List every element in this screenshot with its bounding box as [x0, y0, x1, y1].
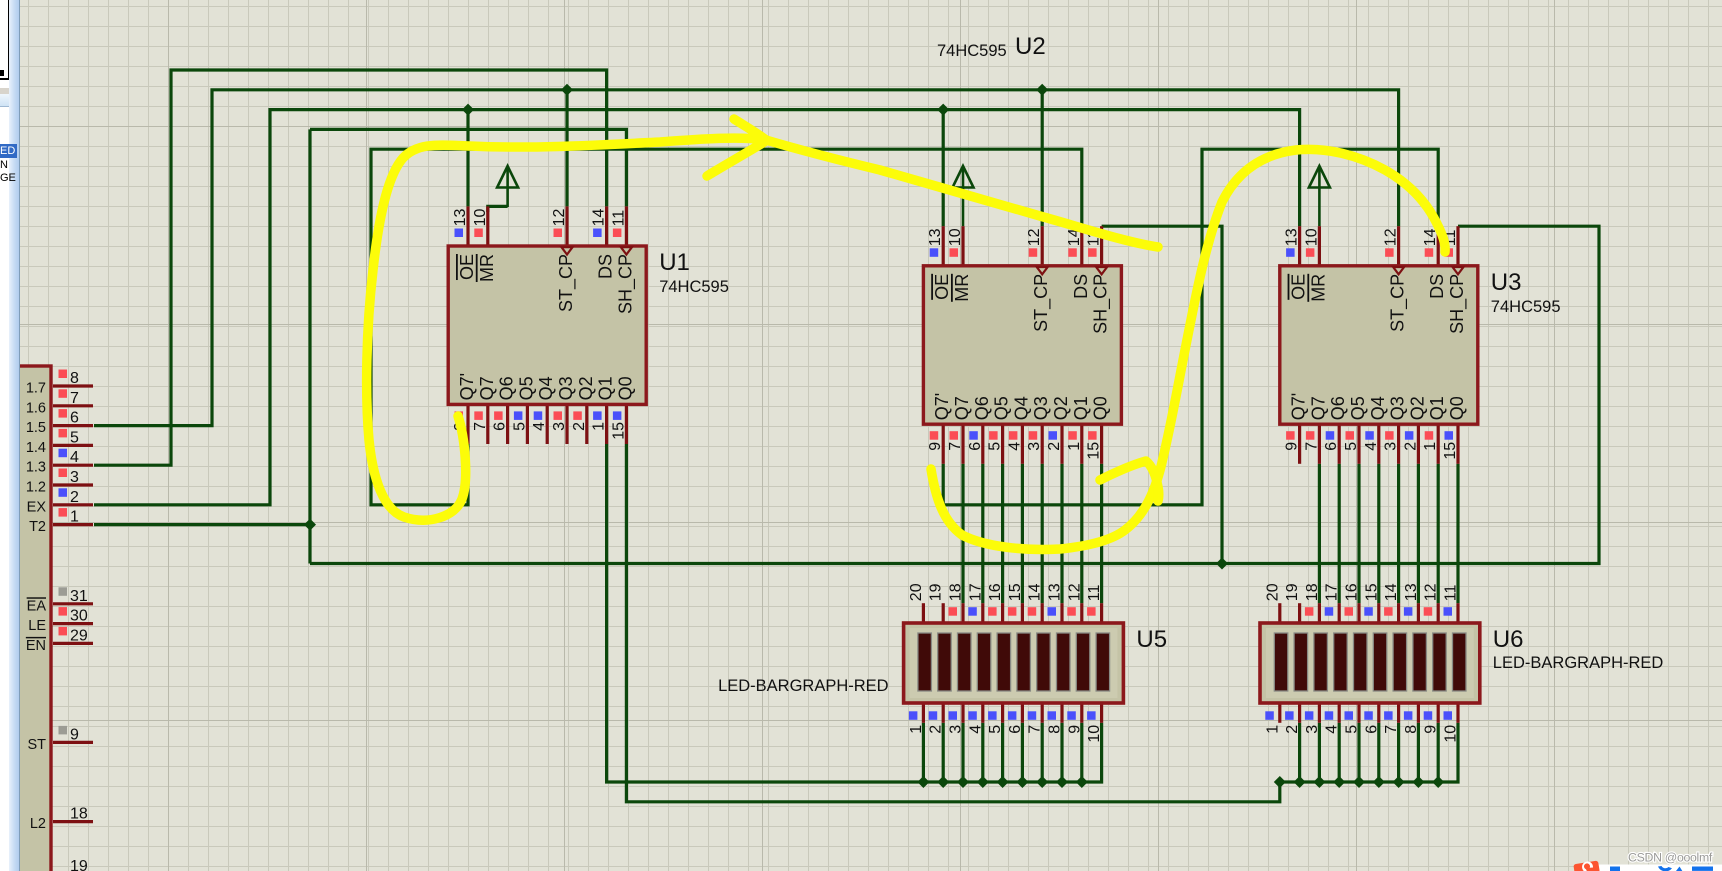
svg-text:4: 4	[70, 449, 79, 466]
svg-text:5: 5	[1343, 442, 1360, 451]
svg-text:EA: EA	[27, 598, 47, 614]
svg-text:1.4: 1.4	[26, 440, 46, 456]
pin 14 (top) of U6	[1397, 603, 1400, 623]
overview pane black border	[0, 0, 10, 80]
pin 5 (bottom) of U3	[1357, 424, 1360, 464]
pin 12 (top) of U2	[1041, 226, 1044, 266]
pin 2 (bottom) of U2	[1060, 424, 1063, 464]
LED segment 1 of U5	[918, 633, 932, 691]
svg-text:EN: EN	[26, 638, 46, 654]
state square pin 5	[988, 711, 997, 720]
svg-text:74HC595: 74HC595	[1491, 298, 1561, 316]
pin 9 (bottom) of U3	[1298, 424, 1301, 464]
pin 19 (top) of U6	[1298, 603, 1301, 623]
svg-text:11: 11	[1443, 584, 1460, 601]
svg-text:Q7: Q7	[952, 396, 972, 420]
svg-text:2: 2	[70, 489, 79, 506]
wires U2 outputs to U5 bargraph	[961, 464, 964, 603]
pin 3 (bottom) of U1	[565, 404, 568, 444]
svg-text:1: 1	[1066, 442, 1083, 451]
state square pin 5	[1345, 711, 1354, 720]
wire SH_CP net: MCU pin1, upper branch to U1 pin 11	[94, 523, 310, 526]
pin 1 (bottom) of U6	[1278, 703, 1281, 723]
svg-text:18: 18	[948, 583, 965, 601]
wire OE net: MCU pin2 to U1/U2/U3 pin 13	[94, 110, 1300, 505]
MCU chip (partial, left edge)	[14, 366, 51, 871]
LED segment 3 of U5	[958, 633, 972, 691]
chip body U2	[923, 266, 1121, 424]
pin 8 (bottom) of U6	[1417, 703, 1420, 723]
pin 7 (bottom) of U1	[486, 404, 489, 444]
svg-text:8: 8	[1403, 725, 1420, 734]
svg-text:SH_CP: SH_CP	[1447, 274, 1468, 334]
svg-text:5: 5	[987, 442, 1004, 451]
pin 9 (bottom) of U1	[466, 404, 469, 444]
svg-text:9: 9	[70, 726, 79, 743]
svg-text:12: 12	[551, 209, 568, 227]
svg-text:15: 15	[1007, 583, 1024, 601]
svg-text:5: 5	[1344, 725, 1361, 734]
svg-text:7: 7	[70, 390, 79, 407]
pin 10 (bottom) of U5	[1100, 703, 1103, 723]
pin 19 (top) of U5	[942, 603, 945, 623]
svg-text:13: 13	[1047, 583, 1064, 601]
svg-text:Q7': Q7'	[1289, 393, 1309, 420]
LED segment 8 of U5	[1057, 633, 1071, 691]
wire SH_CP vertical trunk	[308, 129, 311, 563]
state square pin 13	[1404, 607, 1413, 616]
svg-text:SH_CP: SH_CP	[615, 254, 636, 314]
pin 3 (bottom) of U2	[1041, 424, 1044, 464]
svg-text:Q6: Q6	[1328, 396, 1348, 420]
state square pin 1	[909, 711, 918, 720]
svg-text:OE: OE	[932, 274, 952, 300]
pin 6 (bottom) of U1	[506, 404, 509, 444]
svg-text:17: 17	[1324, 583, 1341, 601]
LED segment 2 of U6	[1294, 633, 1308, 691]
state square pin 3	[1305, 711, 1314, 720]
annotation fork stroke	[1100, 461, 1159, 501]
svg-text:7: 7	[1027, 725, 1044, 734]
svg-text:7: 7	[947, 442, 964, 451]
pin 15 (top) of U6	[1377, 603, 1380, 623]
svg-text:5: 5	[987, 725, 1004, 734]
MCU pin 4 (1.3)	[53, 464, 93, 467]
svg-text:10: 10	[1303, 228, 1320, 246]
svg-text:31: 31	[70, 588, 88, 605]
CSDN logo (partial)	[1573, 861, 1600, 871]
MCU pin 29 (EN)	[53, 642, 93, 645]
svg-text:Q0: Q0	[615, 376, 635, 400]
MCU pin 9 (ST)	[53, 741, 93, 744]
svg-text:5: 5	[70, 429, 79, 446]
pin 12 (top) of U1	[565, 206, 568, 246]
LED segment 4 of U6	[1334, 633, 1348, 691]
svg-text:19: 19	[928, 583, 945, 601]
svg-text:6: 6	[70, 410, 79, 427]
svg-text:13: 13	[452, 209, 469, 227]
state square pin 9	[1067, 711, 1076, 720]
wire ST_CP net: MCU pin6 to U1/U2/U3 pin 12	[94, 90, 1399, 426]
LED segment 7 of U5	[1037, 633, 1051, 691]
svg-text:6: 6	[492, 422, 509, 431]
svg-text:DS: DS	[1427, 274, 1447, 299]
svg-text:20: 20	[1264, 583, 1281, 601]
wire SH_CP bottom bus to U3	[310, 226, 1599, 563]
svg-text:17: 17	[967, 583, 984, 601]
pin 1 (bottom) of U1	[605, 404, 608, 444]
LED segment 10 of U6	[1453, 633, 1467, 691]
svg-text:9: 9	[1284, 442, 1301, 451]
junction ST_CP at U2.12	[1036, 84, 1048, 96]
svg-text:12: 12	[1383, 228, 1400, 246]
pin 10 (bottom) of U6	[1456, 703, 1459, 723]
svg-text:7: 7	[1303, 442, 1320, 451]
svg-text:13: 13	[927, 228, 944, 246]
pin 13 (top) of U1	[466, 206, 469, 246]
pin 14 (top) of U3	[1437, 226, 1440, 266]
clock notch at x=626	[621, 247, 632, 254]
MCU pin 6 (1.5)	[53, 424, 93, 427]
pin 9 (bottom) of U2	[942, 424, 945, 464]
svg-text:16: 16	[1344, 583, 1361, 601]
pin 20 (top) of U6	[1278, 603, 1281, 623]
svg-text:8: 8	[1047, 725, 1064, 734]
svg-text:3: 3	[70, 469, 79, 486]
svg-text:Q7': Q7'	[457, 373, 477, 400]
pin 1 (bottom) of U2	[1080, 424, 1083, 464]
svg-text:11: 11	[610, 210, 627, 227]
annotation swoosh under U2 up to U3	[931, 149, 1445, 549]
svg-text:Q0: Q0	[1447, 396, 1467, 420]
svg-text:74HC595: 74HC595	[659, 278, 729, 296]
svg-text:SH_CP: SH_CP	[1091, 274, 1112, 334]
svg-text:18: 18	[70, 806, 88, 823]
pin 4 (bottom) of U3	[1377, 424, 1380, 464]
pin 1 (bottom) of U3	[1437, 424, 1440, 464]
svg-text:14: 14	[1383, 583, 1400, 601]
svg-text:19: 19	[1284, 583, 1301, 601]
grey separator	[0, 88, 9, 94]
svg-text:Q0: Q0	[1091, 396, 1111, 420]
pin 14 (top) of U5	[1041, 603, 1044, 623]
wire SH_CP branch to U2 pin 11	[1102, 226, 1222, 563]
state square pin 14	[1384, 607, 1393, 616]
overview pane white area	[0, 0, 9, 88]
MCU pin 5 (1.4)	[53, 444, 93, 447]
wires U3 outputs to U6 bargraph	[1318, 464, 1321, 603]
svg-text:10: 10	[472, 209, 489, 227]
svg-text:Q6: Q6	[497, 376, 517, 400]
svg-text:2: 2	[1046, 442, 1063, 451]
state square pin 6	[1008, 711, 1017, 720]
svg-text:Q7': Q7'	[932, 393, 952, 420]
pin 18 (top) of U6	[1318, 603, 1321, 623]
svg-text:EX: EX	[27, 499, 47, 515]
svg-text:L2: L2	[30, 816, 46, 832]
state square pin 16	[1345, 607, 1354, 616]
svg-text:U1: U1	[659, 249, 690, 276]
svg-text:3: 3	[948, 725, 965, 734]
bargraph body U6	[1260, 623, 1480, 703]
svg-text:U5: U5	[1136, 626, 1167, 653]
svg-text:6: 6	[1007, 725, 1024, 734]
svg-text:U2: U2	[1015, 33, 1046, 60]
svg-text:9: 9	[927, 442, 944, 451]
svg-text:15: 15	[610, 422, 627, 440]
svg-text:T2: T2	[29, 519, 46, 535]
svg-text:Q5: Q5	[992, 396, 1012, 420]
svg-text:LED-BARGRAPH-RED: LED-BARGRAPH-RED	[718, 677, 889, 695]
pin 15 (top) of U5	[1021, 603, 1024, 623]
svg-text:3: 3	[1304, 725, 1321, 734]
svg-text:13: 13	[1284, 228, 1301, 246]
pin 4 (bottom) of U6	[1338, 703, 1341, 723]
clock notch at x=1399	[1393, 267, 1404, 274]
svg-text:4: 4	[1006, 442, 1023, 451]
pin 2 (bottom) of U6	[1298, 703, 1301, 723]
pin 2 (bottom) of U5	[942, 703, 945, 723]
clock notch at x=1458	[1453, 267, 1464, 274]
svg-text:LED-BARGRAPH-RED: LED-BARGRAPH-RED	[1493, 654, 1664, 672]
LED segment 4 of U5	[977, 633, 991, 691]
svg-text:3: 3	[551, 422, 568, 431]
pin 5 (bottom) of U6	[1357, 703, 1360, 723]
pin 15 (bottom) of U1	[625, 404, 628, 444]
svg-text:ST_CP: ST_CP	[1031, 274, 1052, 332]
wire U1.Q1 to LED bus1	[607, 444, 1102, 782]
svg-text:12: 12	[1026, 228, 1043, 246]
state square pin 10	[1087, 711, 1096, 720]
state square pin 6	[1364, 711, 1373, 720]
pin 13 (top) of U6	[1417, 603, 1420, 623]
wire cascade U1.Q7' to U2.DS	[371, 149, 1082, 505]
selected row	[0, 144, 17, 158]
pin 4 (bottom) of U1	[546, 404, 549, 444]
clock notch at x=1042	[1037, 267, 1048, 274]
svg-text:Q2: Q2	[1407, 396, 1427, 420]
state square pin 16	[988, 607, 997, 616]
state square pin 11	[1087, 607, 1096, 616]
svg-text:10: 10	[1086, 725, 1103, 743]
LED segment 9 of U6	[1433, 633, 1447, 691]
state square pin 13	[1048, 607, 1057, 616]
svg-text:13: 13	[1403, 583, 1420, 601]
junction ST_CP at U1.12	[561, 84, 573, 96]
state square pin 17	[968, 607, 977, 616]
bargraph body U5	[904, 623, 1124, 703]
pin 17 (top) of U6	[1338, 603, 1341, 623]
svg-text:6: 6	[967, 442, 984, 451]
annotation arrowhead	[707, 119, 766, 176]
state square pin 2	[929, 711, 938, 720]
junction SH_CP at MCU row	[304, 519, 316, 531]
state square pin 15	[1008, 607, 1017, 616]
svg-text:9: 9	[1423, 725, 1440, 734]
svg-text:1: 1	[1422, 442, 1439, 451]
bottom-right banner sliver	[1597, 865, 1722, 871]
power terminal (VCC arrow) at x=963	[953, 166, 974, 188]
LED segment 5 of U6	[1354, 633, 1368, 691]
svg-text:15: 15	[1363, 583, 1380, 601]
power terminal (VCC arrow) at x=1319	[1309, 166, 1330, 188]
pin 5 (bottom) of U1	[526, 404, 529, 444]
MCU pin 8 (1.7)	[53, 384, 93, 387]
svg-text:U3: U3	[1491, 269, 1522, 296]
LED segment 7 of U6	[1393, 633, 1407, 691]
state square pin 4	[968, 711, 977, 720]
svg-text:19: 19	[70, 858, 88, 871]
pin 10 (top) of U3	[1318, 226, 1321, 266]
svg-text:7: 7	[472, 422, 489, 431]
state square pin 11	[1444, 607, 1453, 616]
pin 13 (top) of U3	[1298, 226, 1301, 266]
pin 11 (top) of U5	[1100, 603, 1103, 623]
state square pin 18	[949, 607, 958, 616]
state square pin 4	[1325, 711, 1334, 720]
svg-text:4: 4	[1324, 725, 1341, 734]
svg-text:Q5: Q5	[1348, 396, 1368, 420]
svg-text:6: 6	[1323, 442, 1340, 451]
pin 16 (top) of U6	[1357, 603, 1360, 623]
svg-text:2: 2	[928, 725, 945, 734]
svg-text:18: 18	[1304, 583, 1321, 601]
svg-text:Q7: Q7	[1308, 396, 1328, 420]
state square pin 1	[1265, 711, 1274, 720]
pin 2 (bottom) of U1	[585, 404, 588, 444]
pin 18 (top) of U5	[961, 603, 964, 623]
svg-text:Q5: Q5	[516, 376, 536, 400]
pin 11 (top) of U1	[625, 206, 628, 246]
pin 15 (bottom) of U2	[1100, 424, 1103, 464]
svg-text:4: 4	[967, 725, 984, 734]
pin 11 (top) of U2	[1100, 226, 1103, 266]
banner glyphs (partial)	[1610, 867, 1620, 871]
pin 7 (bottom) of U5	[1041, 703, 1044, 723]
pin 4 (bottom) of U2	[1021, 424, 1024, 464]
svg-text:ST_CP: ST_CP	[1388, 274, 1409, 332]
svg-text:14: 14	[1027, 583, 1044, 601]
svg-text:MR: MR	[1308, 274, 1328, 302]
pin 6 (bottom) of U3	[1338, 424, 1341, 464]
state square pin 2	[1285, 711, 1294, 720]
state square pin 12	[1067, 607, 1076, 616]
state square pin 17	[1325, 607, 1334, 616]
LED segment 6 of U6	[1373, 633, 1387, 691]
svg-text:1: 1	[908, 725, 925, 734]
state square pin 10	[1444, 711, 1453, 720]
MCU pin 18 (L2)	[53, 820, 93, 823]
svg-text:Q3: Q3	[1031, 396, 1051, 420]
LED segment 6 of U5	[1017, 633, 1031, 691]
list area	[0, 107, 9, 871]
pin 9 (bottom) of U5	[1080, 703, 1083, 723]
svg-text:Q6: Q6	[972, 396, 992, 420]
state square pin 7	[1028, 711, 1037, 720]
clock notch at x=567	[562, 247, 573, 254]
svg-text:12: 12	[1423, 583, 1440, 601]
junction OE at U1.13	[462, 104, 474, 116]
state square pin 8	[1404, 711, 1413, 720]
svg-text:ST_CP: ST_CP	[556, 254, 577, 312]
svg-text:4: 4	[531, 422, 548, 431]
yellow freehand annotation: loop around U1 pin9, arrow to U2, arc to U3	[367, 138, 1158, 520]
pin 3 (bottom) of U3	[1397, 424, 1400, 464]
svg-text:Q1: Q1	[596, 376, 616, 400]
pin 17 (top) of U5	[981, 603, 984, 623]
svg-text:10: 10	[1443, 725, 1460, 743]
pin 2 (bottom) of U3	[1417, 424, 1420, 464]
MCU pin 7 (1.6)	[53, 404, 93, 407]
svg-text:1.5: 1.5	[26, 420, 46, 436]
svg-text:20: 20	[908, 583, 925, 601]
pin 11 (top) of U3	[1456, 226, 1459, 266]
MCU pin 1 (T2)	[53, 523, 93, 526]
pin 9 (bottom) of U6	[1437, 703, 1440, 723]
svg-text:1.2: 1.2	[26, 480, 46, 496]
svg-text:8: 8	[70, 370, 79, 387]
pin 12 (top) of U3	[1397, 226, 1400, 266]
LED segment 2 of U5	[938, 633, 952, 691]
pin 8 (bottom) of U5	[1060, 703, 1063, 723]
junction OE at U2.13	[937, 104, 949, 116]
svg-text:15: 15	[1442, 442, 1459, 460]
pin 20 (top) of U5	[922, 603, 925, 623]
MCU pin 30 (LE)	[53, 622, 93, 625]
LED segment 3 of U6	[1314, 633, 1328, 691]
svg-text:3: 3	[1383, 442, 1400, 451]
state square pin 7	[1384, 711, 1393, 720]
clock notch at x=1102	[1096, 267, 1107, 274]
svg-text:DS: DS	[1071, 274, 1091, 299]
svg-text:Q2: Q2	[576, 376, 596, 400]
svg-text:Q4: Q4	[536, 376, 556, 400]
MCU pin 2 (EX)	[53, 503, 93, 506]
svg-text:CSDN @ooolmf: CSDN @ooolmf	[1628, 851, 1713, 865]
svg-text:15: 15	[1086, 442, 1103, 460]
svg-text:12: 12	[1066, 583, 1083, 601]
pin 5 (bottom) of U2	[1001, 424, 1004, 464]
pin 10 (top) of U2	[961, 226, 964, 266]
pin 13 (top) of U5	[1060, 603, 1063, 623]
svg-text:Q1: Q1	[1071, 396, 1091, 420]
LED segment 1 of U6	[1274, 633, 1288, 691]
svg-text:DS: DS	[596, 254, 616, 279]
wires U6 bottom pins to bus + junctions	[1298, 723, 1301, 782]
pin 15 (bottom) of U3	[1456, 424, 1459, 464]
svg-text:MR: MR	[477, 254, 497, 282]
svg-text:6: 6	[1363, 725, 1380, 734]
svg-text:4: 4	[1363, 442, 1380, 451]
svg-text:Q3: Q3	[556, 376, 576, 400]
pin 16 (top) of U5	[1001, 603, 1004, 623]
pin 12 (top) of U6	[1437, 603, 1440, 623]
pin 1 (bottom) of U5	[922, 703, 925, 723]
pin 7 (bottom) of U2	[961, 424, 964, 464]
junction SH_CP branch	[1216, 558, 1228, 570]
svg-text:Q7: Q7	[477, 376, 497, 400]
svg-text:74HC595: 74HC595	[937, 42, 1007, 60]
svg-text:2: 2	[1284, 725, 1301, 734]
pin 13 (top) of U2	[942, 226, 945, 266]
svg-text:2: 2	[571, 422, 588, 431]
svg-text:7: 7	[1383, 725, 1400, 734]
power terminal (VCC arrow) at x=508	[497, 166, 518, 188]
state square pin 3	[949, 711, 958, 720]
svg-text:1: 1	[591, 422, 608, 431]
pin 7 (bottom) of U6	[1397, 703, 1400, 723]
pin 6 (bottom) of U6	[1377, 703, 1380, 723]
